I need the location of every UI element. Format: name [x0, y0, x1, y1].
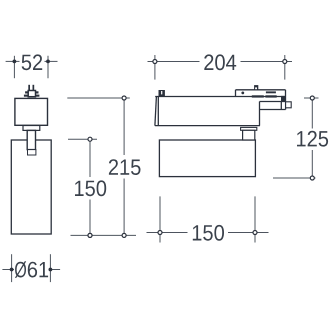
- right view: knuckle flange: [241, 127, 257, 130]
- right view: interior dot: [241, 92, 244, 95]
- dimension 125: label: [297, 131, 328, 147]
- dimension 204: line: [148, 55, 293, 80]
- dimension 204: markers: [153, 60, 157, 64]
- dimension 215: markers: [122, 96, 126, 100]
- left view: cylinder body: [11, 140, 51, 234]
- dimension 204: label: [204, 54, 236, 70]
- dimension 215: label: [109, 159, 141, 175]
- dimension 215: extension and line: [67, 98, 136, 235]
- dimension 125: markers: [310, 96, 314, 100]
- right view: nub end cap: [286, 102, 292, 108]
- dimension O61: line: [2, 254, 60, 282]
- right view: left tab slit: [161, 91, 162, 94]
- dimension 150 left: markers: [88, 137, 92, 141]
- dimension 52: label: [22, 54, 43, 70]
- left view: connector block: [28, 91, 35, 97]
- left view: stem: [27, 130, 35, 149]
- dimension 52: line: [6, 56, 58, 78]
- right view: knuckle box: [243, 130, 255, 140]
- left view: connector side ears: [24, 91, 40, 96]
- dimension 150 right: markers: [158, 231, 162, 235]
- dimension O61: markers: [10, 268, 14, 272]
- dimension O61: label: [15, 261, 48, 278]
- dimension 125: extension and line: [273, 98, 319, 178]
- right view: top small tab: [254, 85, 258, 90]
- right view: adapter outline: [155, 90, 286, 126]
- dimension 150 right: label: [193, 225, 224, 241]
- dimension 52: markers: [13, 60, 17, 64]
- right view: cylinder body: [159, 140, 255, 177]
- left view: track contact prongs: [28, 85, 34, 91]
- left view: flange: [23, 126, 40, 131]
- dimension 150 left: label: [75, 180, 106, 196]
- dimension 150 right: extension and line: [147, 196, 269, 242]
- right view: left tab: [159, 90, 165, 97]
- left view: adapter box: [15, 98, 48, 125]
- right view: interior filled bars: [252, 91, 286, 101]
- left view: stem foot: [28, 150, 36, 155]
- dimension 150 left: extension and line: [68, 139, 97, 233]
